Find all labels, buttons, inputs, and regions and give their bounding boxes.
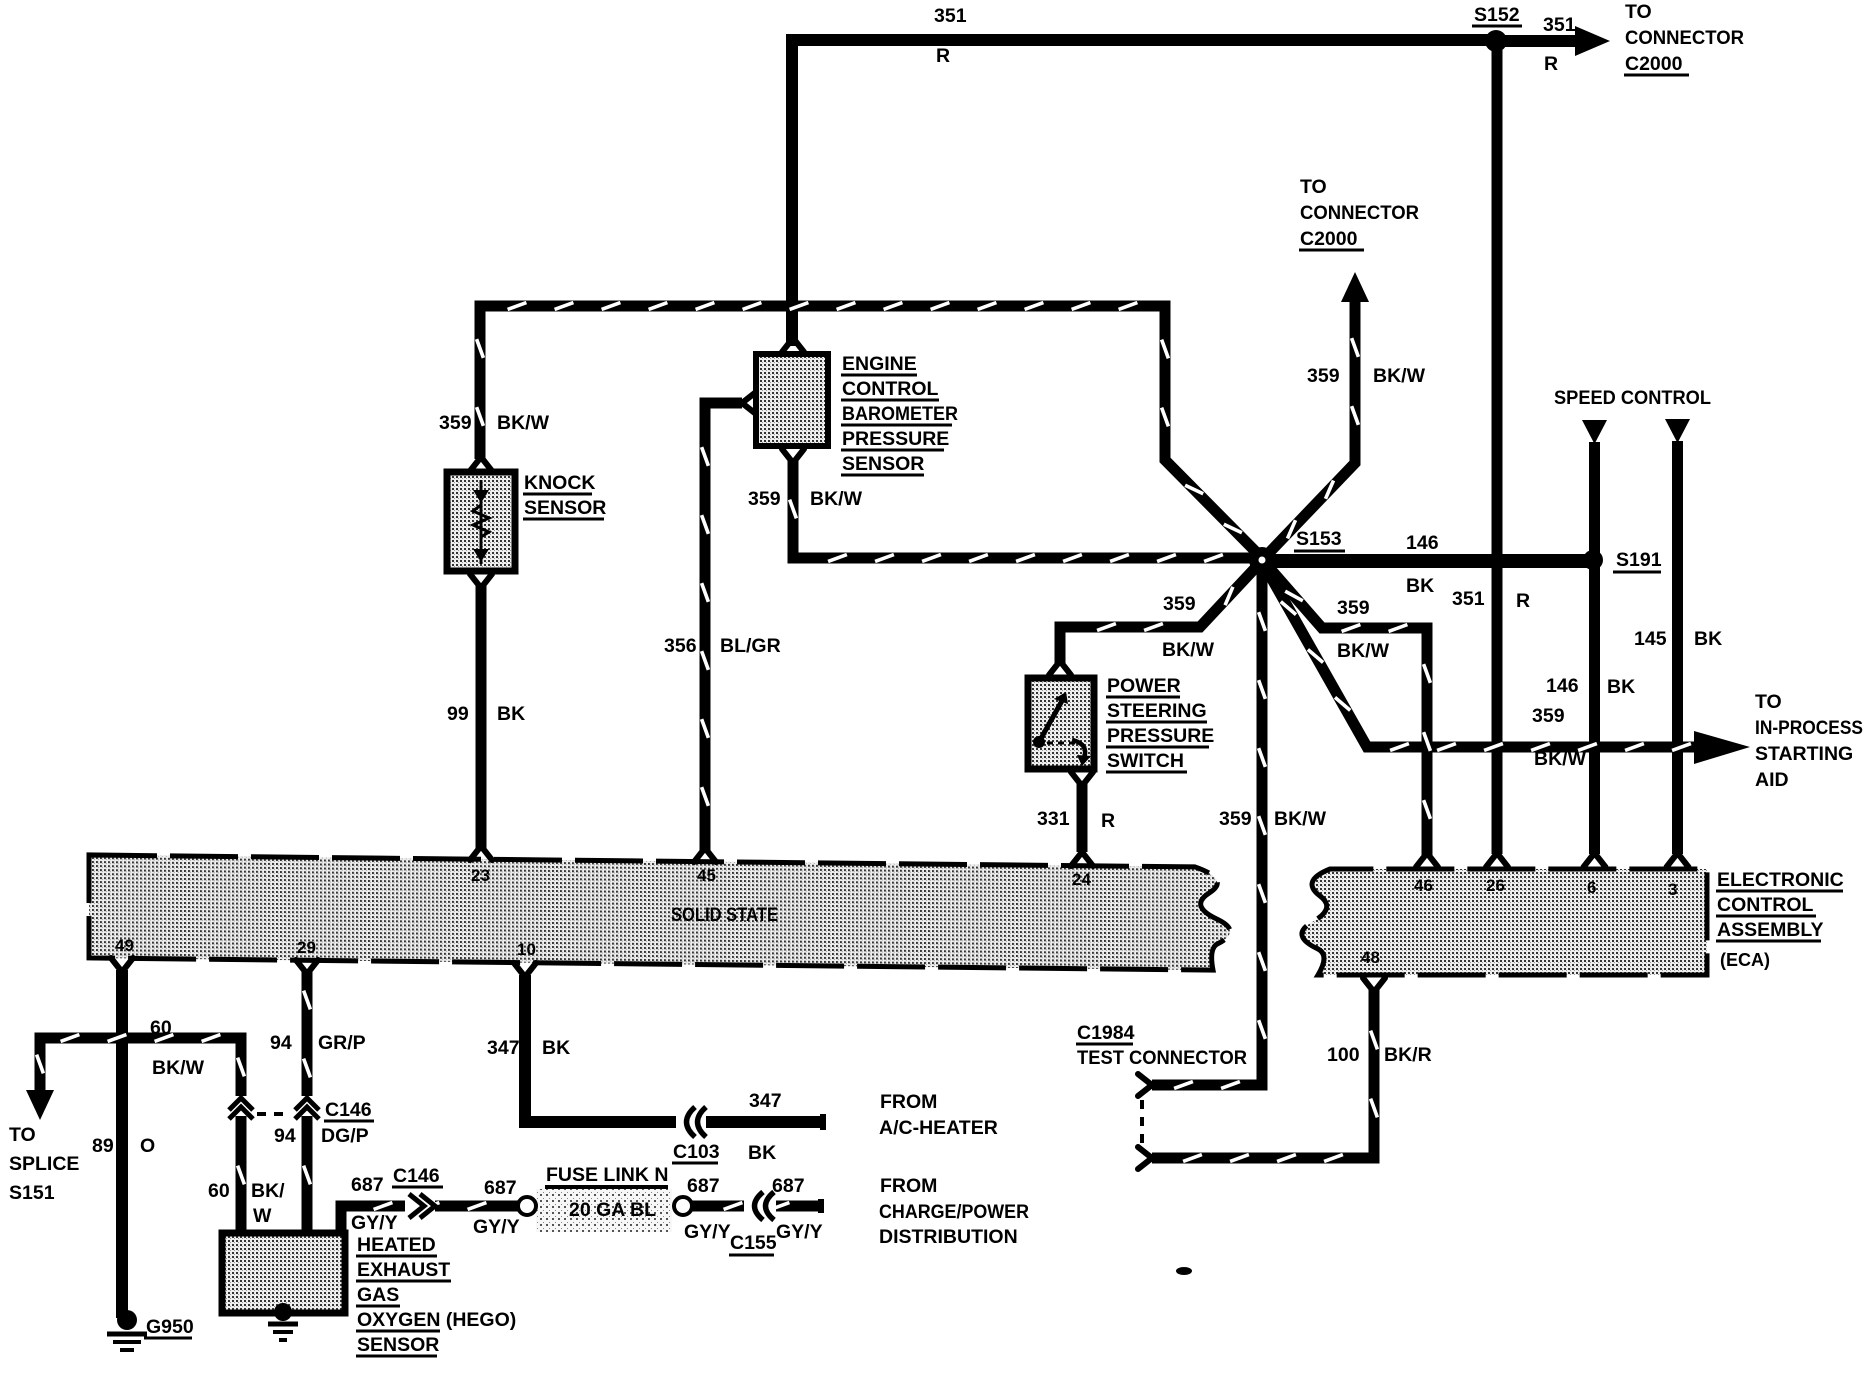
svg-text:94: 94	[270, 1032, 292, 1054]
svg-text:S152: S152	[1474, 4, 1520, 26]
svg-text:45: 45	[697, 866, 716, 885]
svg-text:O: O	[140, 1135, 155, 1157]
svg-text:351: 351	[1452, 588, 1485, 610]
svg-text:60: 60	[150, 1017, 172, 1039]
svg-text:PRESSURE: PRESSURE	[1107, 725, 1214, 747]
svg-text:C2000: C2000	[1300, 228, 1358, 250]
svg-text:TO: TO	[1300, 176, 1327, 198]
svg-text:BK/W: BK/W	[1337, 640, 1390, 662]
svg-text:SPEED CONTROL: SPEED CONTROL	[1554, 387, 1711, 409]
svg-text:29: 29	[297, 938, 316, 957]
svg-text:EXHAUST: EXHAUST	[357, 1259, 450, 1281]
svg-text:CONNECTOR: CONNECTOR	[1625, 27, 1744, 49]
svg-text:ASSEMBLY: ASSEMBLY	[1717, 919, 1824, 941]
svg-text:46: 46	[1414, 876, 1433, 895]
svg-text:10: 10	[517, 940, 536, 959]
svg-text:89: 89	[92, 1135, 114, 1157]
svg-text:(ECA): (ECA)	[1720, 950, 1770, 970]
svg-text:AID: AID	[1755, 769, 1789, 791]
svg-text:BK/W: BK/W	[497, 412, 550, 434]
svg-text:TO: TO	[1625, 1, 1652, 23]
svg-text:99: 99	[447, 703, 469, 725]
svg-text:48: 48	[1361, 948, 1380, 967]
svg-text:TO: TO	[1755, 691, 1782, 713]
svg-text:SWITCH: SWITCH	[1107, 750, 1184, 772]
svg-text:BK/W: BK/W	[810, 488, 863, 510]
svg-text:687: 687	[484, 1177, 517, 1199]
svg-text:GR/P: GR/P	[318, 1032, 366, 1054]
svg-text:S191: S191	[1616, 549, 1662, 571]
svg-text:STARTING: STARTING	[1755, 743, 1853, 765]
svg-text:R: R	[1516, 590, 1530, 612]
svg-text:6: 6	[1587, 878, 1596, 897]
svg-text:STEERING: STEERING	[1107, 700, 1207, 722]
svg-text:FROM: FROM	[880, 1091, 937, 1113]
svg-text:C146: C146	[325, 1099, 372, 1121]
svg-text:G950: G950	[146, 1316, 194, 1338]
svg-text:BK: BK	[1406, 575, 1434, 597]
svg-text:331: 331	[1037, 808, 1070, 830]
svg-text:359: 359	[1532, 705, 1565, 727]
svg-text:687: 687	[351, 1174, 384, 1196]
svg-text:100: 100	[1327, 1044, 1360, 1066]
svg-text:BK/W: BK/W	[1274, 808, 1327, 830]
svg-text:351: 351	[1543, 14, 1576, 36]
svg-text:359: 359	[1163, 593, 1196, 615]
svg-text:BK/W: BK/W	[152, 1057, 205, 1079]
svg-text:BK: BK	[1607, 676, 1635, 698]
svg-text:S153: S153	[1296, 528, 1342, 550]
svg-text:FROM: FROM	[880, 1175, 937, 1197]
svg-text:687: 687	[772, 1175, 805, 1197]
svg-text:146: 146	[1406, 532, 1439, 554]
svg-text:3: 3	[1668, 880, 1677, 899]
svg-text:351: 351	[934, 5, 967, 27]
svg-text:R: R	[1544, 53, 1558, 75]
svg-text:BK/W: BK/W	[1162, 639, 1215, 661]
svg-text:GY/Y: GY/Y	[473, 1216, 520, 1238]
svg-text:26: 26	[1486, 876, 1505, 895]
svg-text:359: 359	[1219, 808, 1252, 830]
svg-text:R: R	[936, 45, 950, 67]
svg-text:GY/Y: GY/Y	[684, 1221, 731, 1243]
svg-text:687: 687	[687, 1175, 720, 1197]
svg-text:W: W	[253, 1205, 272, 1227]
svg-text:BK/: BK/	[251, 1180, 285, 1202]
svg-text:POWER: POWER	[1107, 675, 1181, 697]
svg-text:SENSOR: SENSOR	[524, 497, 606, 519]
svg-text:359: 359	[1337, 597, 1370, 619]
svg-text:BK: BK	[542, 1037, 570, 1059]
svg-text:BK/W: BK/W	[1534, 748, 1587, 770]
svg-text:C1984: C1984	[1077, 1022, 1135, 1044]
svg-text:CONNECTOR: CONNECTOR	[1300, 202, 1419, 224]
svg-text:60: 60	[208, 1180, 230, 1202]
svg-text:OXYGEN (HEGO): OXYGEN (HEGO)	[357, 1309, 516, 1331]
svg-text:SPLICE: SPLICE	[9, 1153, 79, 1175]
svg-text:C155: C155	[730, 1232, 777, 1254]
svg-text:IN-PROCESS: IN-PROCESS	[1755, 717, 1863, 739]
svg-text:BK: BK	[1694, 628, 1722, 650]
svg-text:BL/GR: BL/GR	[720, 635, 781, 657]
svg-text:359: 359	[748, 488, 781, 510]
svg-text:TEST CONNECTOR: TEST CONNECTOR	[1077, 1047, 1247, 1069]
svg-text:SOLID STATE: SOLID STATE	[671, 904, 778, 926]
svg-text:SENSOR: SENSOR	[357, 1334, 439, 1356]
svg-text:356: 356	[664, 635, 697, 657]
svg-text:CHARGE/POWER: CHARGE/POWER	[879, 1201, 1029, 1223]
svg-text:ELECTRONIC: ELECTRONIC	[1717, 869, 1844, 891]
svg-text:BK: BK	[748, 1142, 776, 1164]
svg-text:CONTROL: CONTROL	[842, 378, 938, 400]
svg-text:BAROMETER: BAROMETER	[842, 403, 958, 425]
svg-text:94: 94	[274, 1125, 296, 1147]
svg-text:23: 23	[471, 866, 490, 885]
svg-text:146: 146	[1546, 675, 1579, 697]
svg-text:TO: TO	[9, 1124, 36, 1146]
svg-text:GAS: GAS	[357, 1284, 399, 1306]
svg-text:C2000: C2000	[1625, 53, 1683, 75]
svg-text:PRESSURE: PRESSURE	[842, 428, 949, 450]
svg-text:20 GA BL: 20 GA BL	[569, 1199, 656, 1221]
svg-text:347: 347	[487, 1037, 520, 1059]
svg-text:145: 145	[1634, 628, 1667, 650]
svg-text:359: 359	[439, 412, 472, 434]
svg-text:359: 359	[1307, 365, 1340, 387]
svg-text:C146: C146	[393, 1165, 440, 1187]
svg-text:DG/P: DG/P	[321, 1125, 369, 1147]
svg-text:DISTRIBUTION: DISTRIBUTION	[879, 1226, 1018, 1248]
svg-text:49: 49	[115, 936, 134, 955]
svg-text:S151: S151	[9, 1182, 55, 1204]
svg-text:24: 24	[1072, 870, 1091, 889]
svg-text:GY/Y: GY/Y	[351, 1212, 398, 1234]
svg-text:SENSOR: SENSOR	[842, 453, 924, 475]
svg-text:A/C-HEATER: A/C-HEATER	[879, 1117, 998, 1139]
svg-text:R: R	[1101, 810, 1115, 832]
svg-text:KNOCK: KNOCK	[524, 472, 596, 494]
svg-text:BK: BK	[497, 703, 525, 725]
svg-text:BK/W: BK/W	[1373, 365, 1426, 387]
svg-text:C103: C103	[673, 1141, 720, 1163]
svg-text:FUSE LINK N: FUSE LINK N	[546, 1164, 668, 1186]
svg-text:ENGINE: ENGINE	[842, 353, 917, 375]
svg-text:HEATED: HEATED	[357, 1234, 436, 1256]
svg-text:BK/R: BK/R	[1384, 1044, 1432, 1066]
svg-text:347: 347	[749, 1090, 782, 1112]
svg-text:CONTROL: CONTROL	[1717, 894, 1813, 916]
svg-text:GY/Y: GY/Y	[776, 1221, 823, 1243]
